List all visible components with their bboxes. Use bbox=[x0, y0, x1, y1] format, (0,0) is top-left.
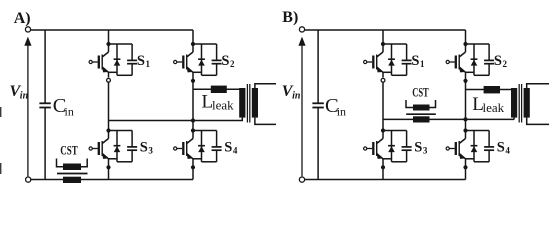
CST A primary winding (on bottom rail) bbox=[63, 177, 81, 183]
junction: A middle wire / right leg bbox=[191, 118, 195, 122]
transistor S4: IGBT bbox=[174, 131, 193, 159]
wire: A input capacitor branch bbox=[44, 30, 46, 180]
input terminal B top bbox=[299, 27, 304, 32]
svg-text:3: 3 bbox=[148, 146, 153, 156]
wire: S3 parallel loop bbox=[109, 131, 133, 162]
svg-text:2: 2 bbox=[230, 59, 235, 69]
junction: S3 collector node bbox=[106, 128, 110, 132]
wire: S3b parallel loop bbox=[383, 131, 407, 162]
wire: S2b parallel loop bbox=[466, 44, 490, 75]
capacitor: snubber cap of S4b bbox=[484, 147, 494, 150]
node: S4b emitter terminal bbox=[465, 159, 467, 164]
label Cin B bbox=[325, 95, 346, 119]
wire: B top rail bbox=[305, 29, 466, 31]
wire: CST A secondary leads bbox=[57, 159, 88, 167]
transformer T2: primary winding bbox=[511, 88, 517, 119]
transistor S1b: IGBT bbox=[364, 44, 383, 72]
CST A secondary winding bbox=[63, 164, 81, 171]
junction: S3b collector node bbox=[381, 128, 385, 132]
diode: antiparallel diode of S1 bbox=[114, 59, 121, 65]
wire: T1 secondary bottom lead bbox=[255, 118, 276, 125]
junction: B middle wire / right leg bbox=[463, 117, 467, 121]
svg-text:CST: CST bbox=[60, 142, 78, 157]
wire: CST B secondary leads bbox=[406, 100, 436, 108]
wire: A bottom rail bbox=[31, 179, 194, 181]
transistor S3b: IGBT bbox=[364, 131, 383, 159]
svg-text:in: in bbox=[337, 105, 346, 119]
svg-text:2: 2 bbox=[503, 59, 508, 69]
svg-text:S: S bbox=[140, 139, 148, 155]
wire: T2 secondary top lead bbox=[527, 84, 549, 88]
svg-text:S: S bbox=[497, 139, 505, 155]
junction: S1 collector node bbox=[106, 42, 110, 46]
wire: A middle wire (primary return) bbox=[109, 120, 244, 122]
CST A core bbox=[57, 173, 88, 175]
wire: B bottom rail bbox=[305, 179, 466, 181]
diode: antiparallel diode of S3b bbox=[388, 146, 395, 152]
transistor S2b: IGBT bbox=[446, 44, 465, 72]
capacitor: snubber cap of S2b bbox=[484, 60, 494, 63]
diode: antiparallel diode of S2b bbox=[471, 59, 478, 65]
wire: A right leg bbox=[192, 30, 194, 180]
svg-text:4: 4 bbox=[505, 146, 510, 156]
diode: antiparallel diode of S4b bbox=[471, 146, 478, 152]
junction: S2 collector node bbox=[191, 42, 195, 46]
wire: T2 secondary bottom lead bbox=[527, 118, 549, 125]
transformer T1: primary winding bbox=[239, 88, 245, 121]
diode: antiparallel diode of S4 bbox=[198, 146, 205, 152]
wire: S4 parallel loop bbox=[193, 131, 217, 162]
wire: B middle wire through CST bbox=[383, 118, 514, 120]
node: S3 emitter terminal bbox=[108, 159, 110, 164]
svg-text:3: 3 bbox=[423, 146, 428, 156]
svg-text:S: S bbox=[137, 53, 145, 69]
wire: A Lleak branch bbox=[193, 88, 240, 90]
svg-text:CST: CST bbox=[412, 84, 429, 99]
wire: A left leg bbox=[108, 30, 110, 180]
inductor Lleak A bbox=[211, 86, 227, 93]
wire: A top rail bbox=[31, 29, 194, 31]
junction: S1b collector node bbox=[381, 42, 385, 46]
scan artifact left edge bbox=[0, 107, 1, 117]
diode: antiparallel diode of S1b bbox=[388, 59, 395, 65]
label Lleak B bbox=[472, 94, 504, 115]
svg-text:S: S bbox=[411, 53, 419, 69]
svg-text:B): B) bbox=[282, 9, 298, 26]
diode: antiparallel diode of S2 bbox=[198, 59, 205, 65]
wire: B input capacitor branch bbox=[317, 30, 319, 180]
transistor S2: IGBT bbox=[174, 44, 193, 72]
transformer T1: core bbox=[247, 84, 249, 123]
node: S2 emitter terminal bbox=[192, 72, 194, 77]
wire: B Lleak branch bbox=[466, 89, 513, 91]
capacitor: snubber cap of S3 bbox=[127, 147, 137, 150]
capacitor Cin B bbox=[312, 103, 323, 107]
label Lleak A bbox=[202, 92, 235, 113]
capacitor: snubber cap of S4 bbox=[212, 147, 222, 150]
transistor S1: IGBT bbox=[89, 44, 108, 72]
junction: S4b collector node bbox=[463, 128, 467, 132]
transistor S3: IGBT bbox=[89, 131, 108, 159]
junction: S4 collector node bbox=[191, 128, 195, 132]
capacitor: snubber cap of S1b bbox=[402, 60, 412, 63]
svg-text:S: S bbox=[224, 139, 232, 155]
inductor Lleak B bbox=[484, 86, 500, 93]
node: S3b emitter terminal bbox=[382, 159, 384, 164]
svg-text:4: 4 bbox=[233, 146, 238, 156]
svg-text:in: in bbox=[20, 90, 29, 101]
svg-text:A): A) bbox=[14, 10, 31, 27]
wire: S4b parallel loop bbox=[466, 131, 490, 162]
input terminal B bottom bbox=[299, 177, 304, 182]
svg-text:1: 1 bbox=[420, 59, 425, 69]
CST B core bbox=[406, 113, 436, 115]
transformer T2: core bbox=[519, 84, 521, 123]
node: S1 emitter terminal bbox=[108, 72, 110, 77]
label Cin A bbox=[53, 95, 74, 119]
wire: S1b parallel loop bbox=[383, 44, 407, 75]
svg-text:S: S bbox=[494, 53, 502, 69]
Vin voltage arrow B bbox=[298, 37, 305, 177]
svg-text:S: S bbox=[221, 53, 229, 69]
svg-text:S: S bbox=[414, 139, 422, 155]
junction: S2b collector node bbox=[463, 42, 467, 46]
transformer T2: secondary winding bbox=[524, 88, 530, 118]
capacitor Cin A bbox=[39, 103, 50, 107]
wire: B right leg bbox=[465, 30, 467, 180]
node: S1b emitter terminal bbox=[382, 72, 384, 77]
svg-text:leak: leak bbox=[212, 98, 234, 113]
capacitor: snubber cap of S2 bbox=[212, 60, 222, 63]
svg-text:1: 1 bbox=[146, 59, 151, 69]
capacitor: snubber cap of S3b bbox=[402, 147, 412, 150]
svg-text:in: in bbox=[65, 105, 74, 119]
capacitor: snubber cap of S1 bbox=[127, 60, 137, 63]
label Vin B bbox=[282, 83, 301, 102]
transformer T1: secondary winding bbox=[252, 88, 258, 118]
label Vin A bbox=[10, 83, 29, 102]
input terminal A top bbox=[25, 27, 30, 32]
input terminal A bottom bbox=[26, 177, 31, 182]
diode: antiparallel diode of S3 bbox=[114, 146, 121, 152]
CST B primary winding (on middle wire) bbox=[413, 116, 430, 122]
Vin voltage arrow A bbox=[24, 37, 31, 177]
wire: S2 parallel loop bbox=[193, 44, 217, 75]
transistor S4b: IGBT bbox=[446, 131, 465, 159]
node: S2b emitter terminal bbox=[465, 72, 467, 77]
CST B secondary winding bbox=[413, 105, 430, 111]
wire: T1 secondary top lead bbox=[255, 84, 276, 88]
wire: S1 parallel loop bbox=[109, 44, 133, 75]
node: S4 emitter terminal bbox=[192, 159, 194, 164]
wire: B left leg bbox=[382, 30, 384, 180]
svg-text:in: in bbox=[292, 90, 301, 101]
svg-text:leak: leak bbox=[483, 100, 505, 115]
